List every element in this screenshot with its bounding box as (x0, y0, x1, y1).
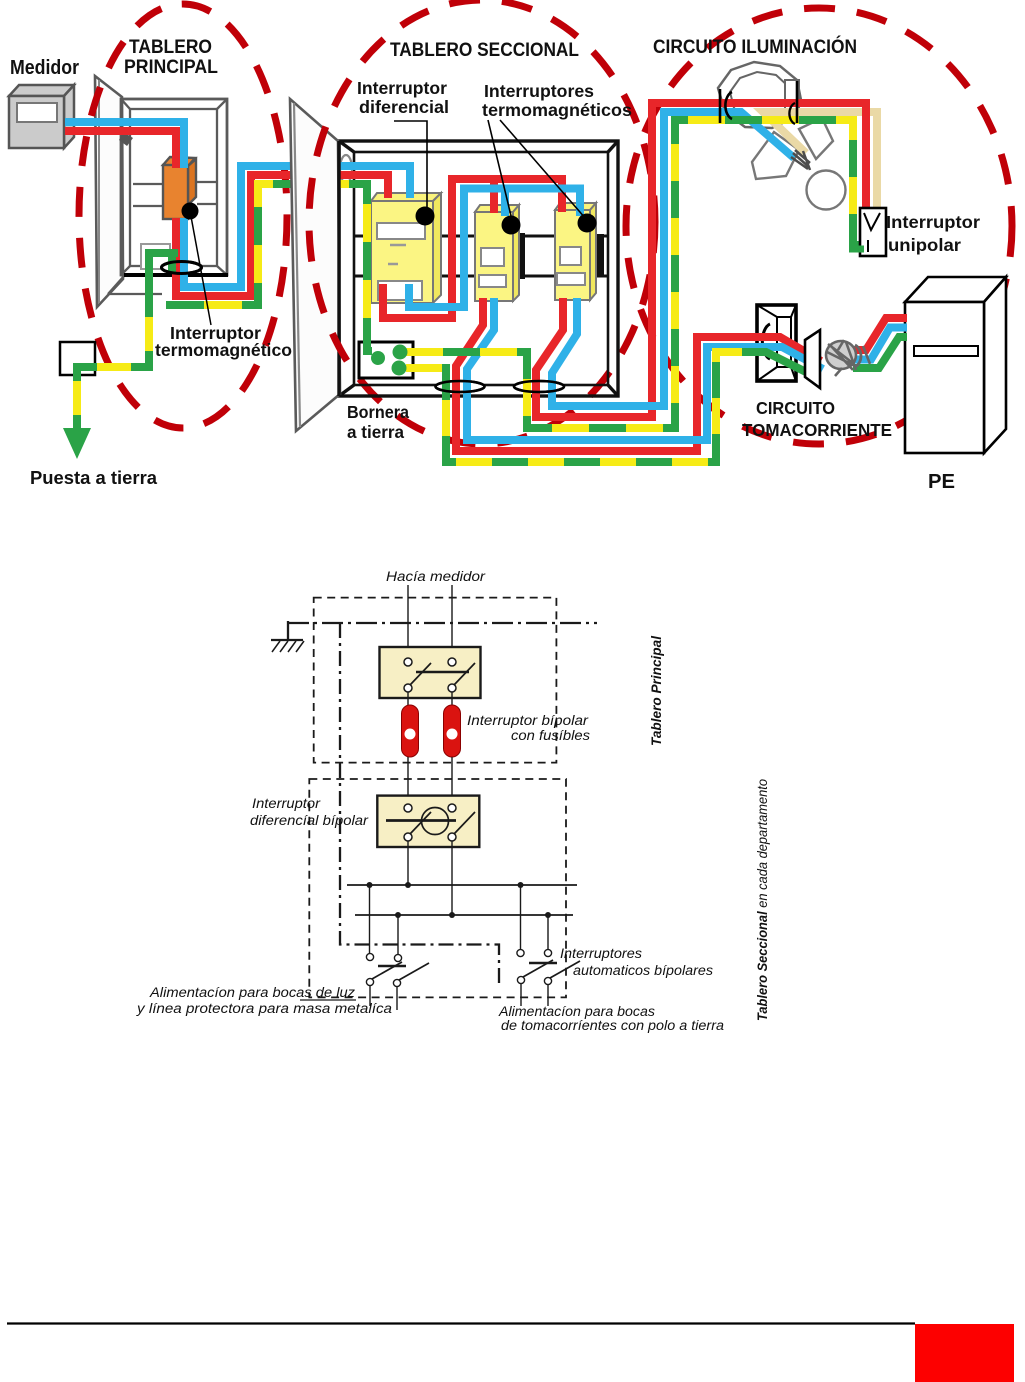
svg-text:Interruptor: Interruptor (357, 78, 447, 98)
svg-text:Alimentacíon para bocas de luz: Alimentacíon para bocas de luz (149, 985, 355, 1000)
svg-text:PE: PE (928, 471, 955, 493)
svg-text:Medidor: Medidor (10, 57, 79, 79)
svg-text:CIRCUITO: CIRCUITO (756, 398, 835, 418)
svg-text:diferencíal bípolar: diferencíal bípolar (250, 813, 369, 828)
svg-text:unipolar: unipolar (888, 235, 961, 255)
svg-text:Interruptor bípolar: Interruptor bípolar (467, 713, 589, 728)
svg-text:de tomacorríentes con polo a t: de tomacorríentes con polo a tierra (501, 1018, 725, 1033)
svg-text:automaticos bípolares: automaticos bípolares (573, 963, 713, 978)
svg-text:Hacía medidor: Hacía medidor (386, 569, 486, 584)
svg-text:TABLERO: TABLERO (129, 36, 212, 58)
svg-text:diferencial: diferencial (359, 97, 449, 117)
svg-text:Interruptor: Interruptor (252, 796, 321, 811)
svg-text:TOMACORRIENTE: TOMACORRIENTE (742, 420, 892, 440)
svg-text:PRINCIPAL: PRINCIPAL (124, 56, 218, 78)
svg-text:TABLERO SECCIONAL: TABLERO SECCIONAL (390, 39, 579, 61)
svg-text:y línea protectora para masa m: y línea protectora para masa metalíca (136, 1001, 393, 1016)
svg-text:a tierra: a tierra (347, 422, 404, 442)
svg-text:Interruptores: Interruptores (560, 946, 642, 961)
svg-text:Interruptores: Interruptores (484, 81, 594, 101)
svg-text:Interruptor: Interruptor (886, 212, 980, 232)
svg-text:con fusíbles: con fusíbles (511, 728, 590, 743)
svg-text:termomagnéticos: termomagnéticos (482, 100, 632, 120)
svg-text:Bornera: Bornera (347, 402, 409, 422)
svg-text:Puesta a tierra: Puesta a tierra (30, 468, 158, 488)
svg-text:CIRCUITO ILUMINACIÓN: CIRCUITO ILUMINACIÓN (653, 34, 857, 58)
svg-text:Tablero Seccional en cada depa: Tablero Seccional en cada departamento (755, 779, 770, 1021)
svg-text:Alimentacíon para bocas: Alimentacíon para bocas (498, 1004, 655, 1019)
svg-text:Tablero Principal: Tablero Principal (648, 635, 664, 746)
svg-text:termomagnético: termomagnético (155, 340, 292, 360)
